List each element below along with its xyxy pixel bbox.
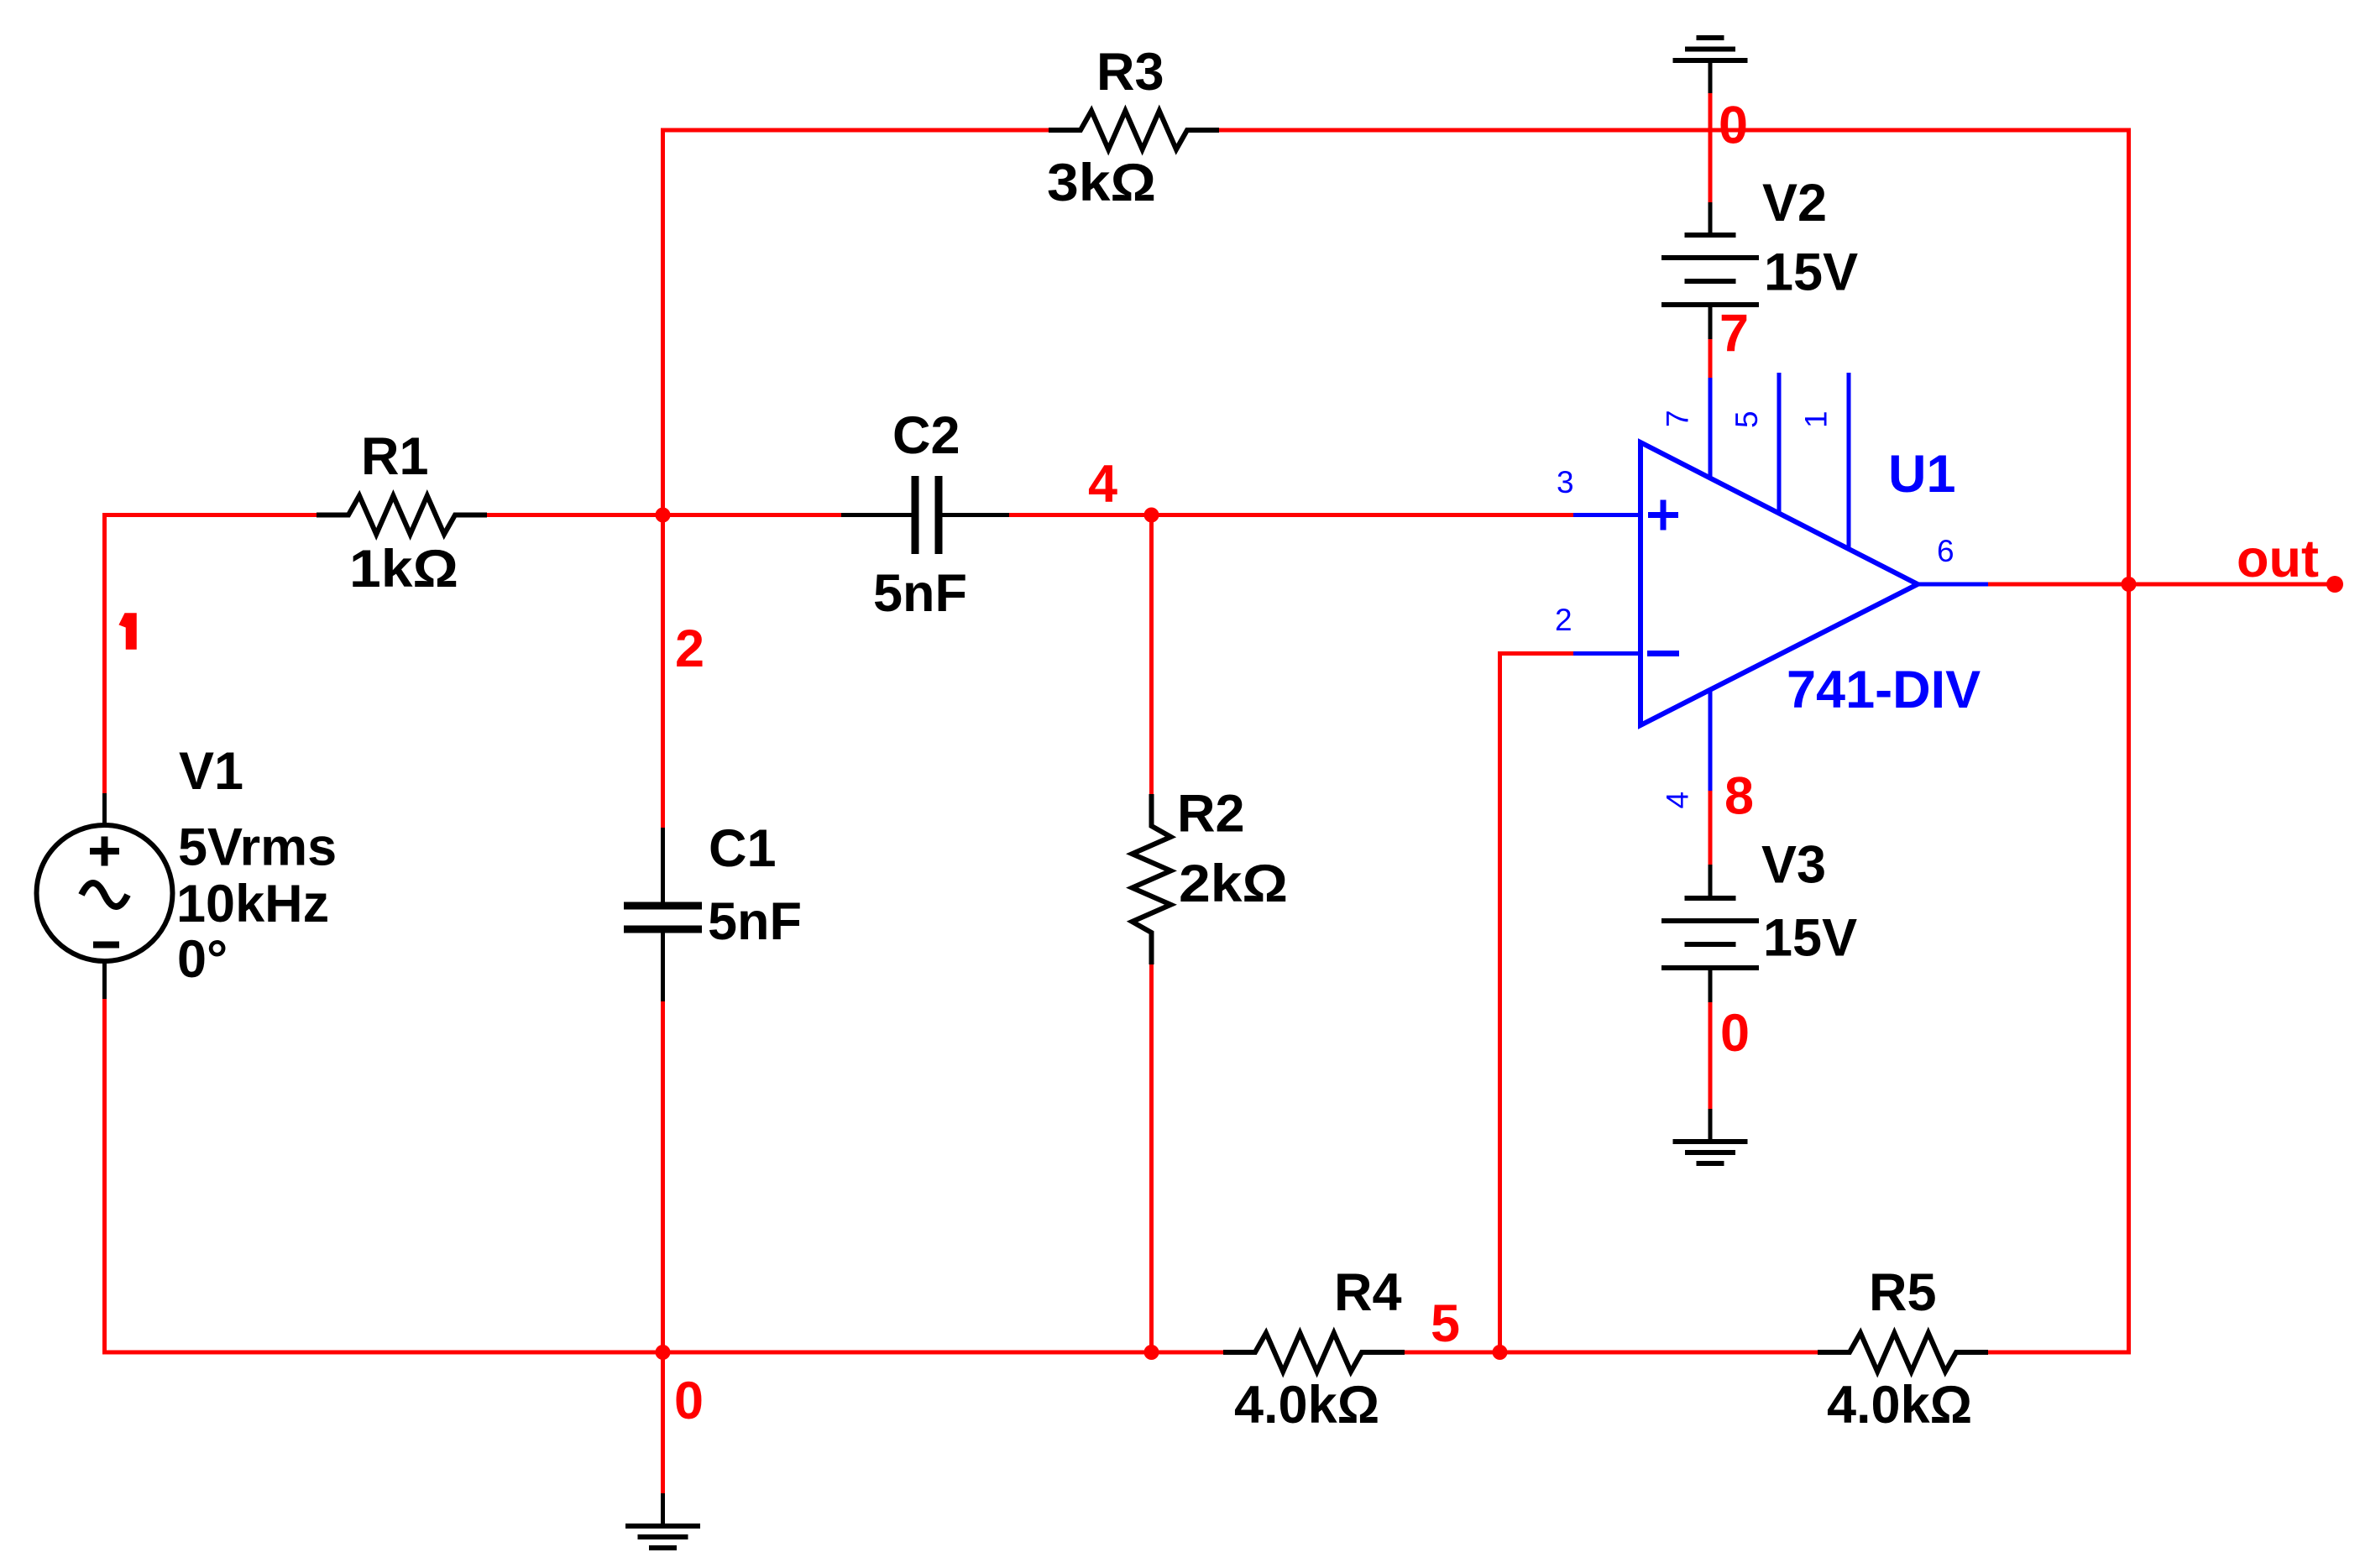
op-amp U1 pin2 stub [1573,651,1640,656]
svg-text:R5: R5 [1869,1263,1937,1322]
wire V3 bottom lead black [1709,970,1713,1002]
svg-text:2kΩ: 2kΩ [1179,855,1288,913]
svg-text:R2: R2 [1177,785,1245,844]
svg-text:3: 3 [1557,465,1574,499]
battery V2 [1661,235,1759,305]
svg-text:0: 0 [1720,1004,1750,1063]
wire node1 left vertical lower [102,999,107,1352]
wire out right vertical [2127,130,2131,1355]
svg-text:2: 2 [675,619,704,678]
svg-text:5: 5 [1729,410,1764,428]
wire node2 vertical to C1 [661,515,665,828]
svg-text:10kHz: 10kHz [176,875,329,933]
svg-text:8: 8 [1724,767,1754,826]
node 0 junction at R2 bottom [1144,1345,1159,1360]
wire node5 inverting input horizontal [1498,651,1573,656]
svg-text:0: 0 [674,1372,704,1430]
svg-text:C2: C2 [892,406,960,465]
wire V2 bottom lead black [1709,307,1713,339]
wire node8 pin4 to V3 [1709,791,1713,865]
svg-text:1kΩ: 1kΩ [349,540,458,598]
voltage source V1 lead bottom [102,962,107,999]
wire node0 top rail left [663,128,1049,133]
wire out bottom rail right [1988,1351,2129,1355]
out junction [2122,577,2137,592]
wire node0 V3 to ground [1709,1002,1713,1109]
svg-text:5nF: 5nF [708,892,802,951]
svg-text:0°: 0° [177,930,228,989]
voltage source V1 plus sign [90,837,119,866]
wire node0 top rail right [1218,128,2131,133]
wire bottom ground stem black [661,1493,665,1526]
wire V3 top lead black [1709,865,1713,898]
op-amp U1 pin4 stub [1709,690,1713,792]
wire top ground stem black [1709,63,1713,93]
op-amp U1 minus marker [1647,651,1679,656]
wire node0 top ground stem [1709,93,1713,202]
wire node4 horizontal C2-opamp [1009,513,1573,517]
op-amp U1 plus marker [1648,500,1678,531]
svg-text:2: 2 [1555,603,1572,637]
wire node1 top horizontal [105,513,318,517]
svg-text:V2: V2 [1762,174,1827,233]
capacitor C1 top lead [661,828,665,902]
wire node4 R2 to bottom rail [1149,964,1154,1352]
svg-text:4.0kΩ: 4.0kΩ [1234,1376,1379,1435]
svg-text:741-DIV: 741-DIV [1787,661,1981,719]
resistor R2 [1133,794,1171,964]
ground below V3 (node 0) [1673,1142,1748,1163]
op-amp U1 pin6 output stub [1918,583,1988,587]
svg-text:7: 7 [1719,305,1749,363]
svg-text:out: out [2237,530,2319,588]
svg-text:4: 4 [1088,455,1117,514]
svg-text:R3: R3 [1096,43,1164,102]
node 0 junction at C1 ground [656,1345,671,1360]
op-amp U1 pin1 stub [1847,373,1851,549]
voltage source V1 minus sign [93,942,119,949]
wire node5 vertical [1498,654,1502,1353]
svg-text:5nF: 5nF [873,564,967,623]
battery V3 [1661,898,1759,968]
capacitor C2 left lead [841,513,912,517]
wire node5 bottom rail middle [1405,1351,1818,1355]
svg-text:V3: V3 [1761,836,1826,895]
ground bottom left (node 0) [625,1526,700,1548]
wire out output horizontal [1988,583,2335,587]
capacitor C1 plates [624,902,702,910]
out terminal [2326,576,2343,593]
svg-text:7: 7 [1661,410,1695,427]
svg-text:6: 6 [1937,534,1954,568]
wire node2 horizontal R1-C2 [487,513,841,517]
svg-text:15V: 15V [1763,909,1857,968]
node 4 junction [1144,508,1159,523]
resistor R4 [1223,1333,1405,1372]
svg-text:U1: U1 [1888,445,1956,504]
svg-text:5: 5 [1431,1294,1460,1353]
node 5 junction [1493,1345,1508,1360]
resistor R3 [1049,111,1219,149]
svg-text:R4: R4 [1334,1263,1402,1322]
svg-text:C1: C1 [709,819,777,878]
wire V2 top lead black [1709,202,1713,235]
wire node7 V2 to pin7 [1709,339,1713,378]
svg-text:R1: R1 [361,427,429,486]
capacitor C2 plates [912,476,919,554]
voltage source V1 circle [37,825,173,961]
svg-text:4: 4 [1661,792,1695,809]
svg-text:V1: V1 [179,742,243,801]
ground top (node 0) [1673,38,1748,60]
svg-text:5Vrms: 5Vrms [178,818,337,877]
resistor R5 [1818,1333,1988,1372]
voltage source V1 lead top [102,793,107,826]
capacitor C1 bottom lead [661,933,665,1002]
op-amp U1 pin7 stub [1709,378,1713,478]
wire node4 vertical to R2 [1149,515,1154,795]
svg-text:4.0kΩ: 4.0kΩ [1827,1376,1972,1435]
node 2 junction [656,508,671,523]
node 1 label [120,614,137,649]
wire node2 vertical upper [661,128,665,515]
op-amp U1 pin5 stub [1777,373,1782,514]
op-amp U1 pin3 stub [1573,513,1640,517]
wire node0 C1 to ground [661,1001,665,1493]
wire node1 left vertical upper [102,513,107,793]
svg-text:1: 1 [1799,410,1834,428]
svg-text:0: 0 [1719,97,1748,155]
svg-text:3kΩ: 3kΩ [1047,154,1156,212]
op-amp U1 triangle [1640,442,1918,725]
resistor R1 [317,496,487,535]
capacitor C2 right lead [943,513,1010,517]
svg-text:15V: 15V [1764,243,1858,302]
voltage source V1 sine symbol [81,883,128,907]
wire V3 ground stem black [1709,1109,1713,1142]
wire node0 bottom rail left [102,1351,1223,1355]
